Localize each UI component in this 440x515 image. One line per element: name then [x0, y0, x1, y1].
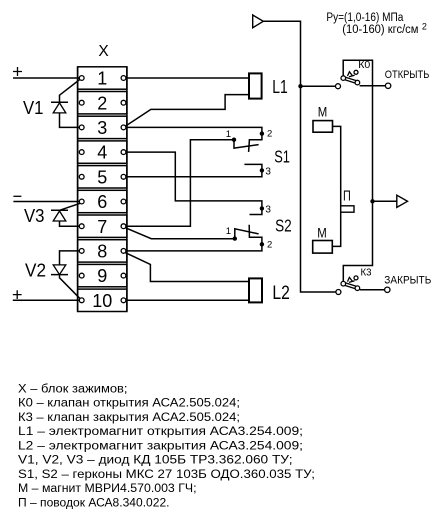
- svg-text:К3: К3: [361, 268, 372, 279]
- svg-text:S1: S1: [274, 146, 290, 166]
- svg-text:М: М: [317, 225, 327, 241]
- svg-text:L2: L2: [272, 283, 290, 304]
- svg-text:9: 9: [97, 266, 107, 286]
- svg-text:ОТКРЫТЬ: ОТКРЫТЬ: [385, 69, 430, 81]
- svg-text:S2: S2: [275, 215, 292, 235]
- svg-text:L2 – электромагнит закрытия АС: L2 – электромагнит закрытия АСА3.254.009…: [18, 440, 303, 452]
- svg-text:X – блок зажимов;: X – блок зажимов;: [18, 384, 127, 396]
- svg-text:L1 – электромагнит открытия АС: L1 – электромагнит открытия АСА3.254.009…: [18, 426, 303, 438]
- svg-text:2: 2: [422, 22, 427, 32]
- svg-text:М – магнит МВРИ4.570.003 ГЧ;: М – магнит МВРИ4.570.003 ГЧ;: [18, 483, 197, 495]
- svg-text:V1: V1: [23, 98, 44, 118]
- svg-text:3: 3: [265, 167, 271, 178]
- svg-text:8: 8: [97, 242, 107, 262]
- svg-text:5: 5: [97, 167, 107, 187]
- svg-text:К3 – клапан закрытия АСА2.505.: К3 – клапан закрытия АСА2.505.024;: [18, 412, 240, 424]
- svg-text:М: М: [318, 103, 328, 119]
- svg-text:П: П: [343, 187, 351, 204]
- svg-text:1: 1: [226, 226, 231, 237]
- svg-text:V1, V2, V3 – диод КД 105Б ТР3.: V1, V2, V3 – диод КД 105Б ТР3.362.060 ТУ…: [18, 455, 293, 467]
- svg-text:X: X: [98, 43, 109, 60]
- svg-text:К0: К0: [358, 60, 370, 71]
- svg-text:7: 7: [97, 217, 107, 237]
- svg-text:1: 1: [226, 129, 231, 140]
- svg-text:П – поводок АСА8.340.022.: П – поводок АСА8.340.022.: [18, 497, 170, 509]
- svg-text:2: 2: [97, 93, 107, 113]
- svg-text:3: 3: [97, 118, 107, 138]
- svg-text:2: 2: [267, 128, 272, 139]
- svg-text:V3: V3: [24, 206, 45, 226]
- svg-text:10: 10: [92, 291, 112, 311]
- svg-text:2: 2: [267, 240, 272, 251]
- svg-text:К0 – клапан открытия АСА2.505.: К0 – клапан открытия АСА2.505.024;: [18, 398, 240, 410]
- svg-text:L1: L1: [272, 76, 288, 97]
- svg-text:ЗАКРЫТЬ: ЗАКРЫТЬ: [384, 274, 431, 286]
- svg-text:6: 6: [97, 192, 107, 212]
- svg-text:Ру=(1,0-16) МПа: Ру=(1,0-16) МПа: [326, 12, 404, 24]
- svg-text:(10-160) кгс/см: (10-160) кгс/см: [342, 24, 418, 36]
- svg-text:S1, S2 – герконы МКС 27 103Б О: S1, S2 – герконы МКС 27 103Б ОДО.360.035…: [18, 469, 315, 481]
- svg-text:4: 4: [97, 143, 107, 163]
- svg-text:V2: V2: [25, 260, 46, 280]
- svg-text:3: 3: [265, 205, 271, 216]
- svg-text:1: 1: [97, 69, 107, 89]
